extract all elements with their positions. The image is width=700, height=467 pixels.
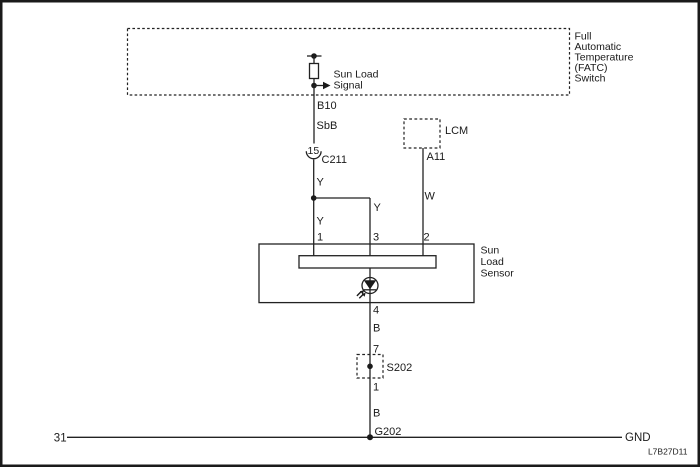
wire: horizontal stub at top of resistor [307, 55, 322, 57]
svg-text:S202: S202 [387, 362, 413, 374]
LCM dashed box [404, 119, 440, 148]
wire: sensor bar down through photodiode to ground line [369, 268, 371, 437]
svg-text:B10: B10 [317, 100, 337, 112]
wire: branch horizontal to pin 3 [314, 197, 370, 199]
label Sun Load Sensor [481, 245, 515, 280]
svg-text:Y: Y [317, 177, 325, 189]
connector C211 (half-circle symbol) [306, 151, 321, 158]
node: splice dot [367, 364, 373, 370]
svg-text:3: 3 [373, 232, 379, 244]
svg-text:A11: A11 [427, 151, 446, 163]
node: sun load signal junction dot [311, 83, 317, 89]
label: Sun Load Signal [334, 69, 379, 92]
svg-text:7: 7 [373, 343, 379, 355]
node: branch junction dot [311, 195, 317, 201]
ground bus wire [67, 436, 622, 438]
FATC switch dashed box [128, 29, 570, 96]
svg-text:2: 2 [424, 232, 430, 244]
FATC switch label [575, 31, 634, 85]
svg-text:1: 1 [317, 232, 323, 244]
svg-text:B: B [373, 323, 380, 335]
svg-text:B: B [373, 408, 380, 420]
svg-text:Sensor: Sensor [481, 268, 515, 280]
svg-text:LCM: LCM [445, 125, 468, 137]
resistor (sun load sensing element in FATC) [310, 64, 319, 79]
wire: signal node down to connector C211 [313, 86, 315, 144]
wire: resistor bottom to signal node [313, 79, 315, 86]
wire: dot to resistor top [313, 56, 315, 64]
svg-text:Signal: Signal [334, 80, 363, 92]
splice S202 dashed box [357, 355, 383, 379]
svg-text:Y: Y [317, 216, 325, 228]
node: top junction dot [311, 53, 317, 59]
node: ground junction dot [367, 434, 373, 440]
svg-text:Y: Y [374, 202, 382, 214]
photodiode D (sun load sensor element) [362, 278, 378, 294]
svg-text:SbB: SbB [317, 120, 338, 132]
sensor connector bar [299, 256, 436, 268]
svg-text:4: 4 [373, 305, 379, 317]
wire: C211 down to sensor pin 1 [313, 160, 315, 257]
svg-text:G202: G202 [375, 426, 402, 438]
svg-text:GND: GND [625, 432, 651, 444]
svg-text:31: 31 [54, 433, 67, 445]
svg-text:15: 15 [308, 145, 320, 157]
svg-text:Sun: Sun [481, 245, 500, 257]
svg-text:C211: C211 [322, 154, 347, 166]
signal arrow to Sun Load Signal label [314, 82, 331, 90]
svg-text:L7B27D11: L7B27D11 [648, 447, 688, 457]
svg-text:Load: Load [481, 256, 505, 268]
svg-text:Switch: Switch [575, 73, 606, 85]
wire: LCM to sensor pin 2 [422, 148, 424, 256]
wire: branch down to sensor pin 3 [369, 198, 371, 256]
sun load sensor box [259, 244, 474, 303]
light ray arrows into photodiode [357, 292, 363, 299]
svg-text:W: W [425, 191, 436, 203]
svg-text:1: 1 [373, 382, 379, 394]
